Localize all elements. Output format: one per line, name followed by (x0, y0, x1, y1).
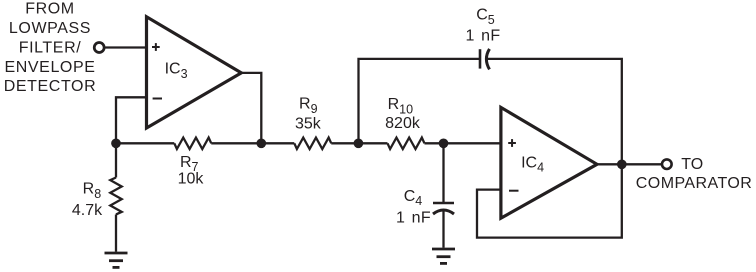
resistor R8 (72, 143, 122, 251)
node E (output junction) (617, 159, 627, 169)
wire R7 to node B (211, 142, 261, 144)
svg-text:R10: R10 (388, 96, 414, 116)
node D (R10/C4/IC4 plus junction) (439, 138, 449, 148)
svg-text:ENVELOPE: ENVELOPE (4, 59, 95, 76)
wire node B to R9 (261, 142, 294, 144)
label R10 820k (385, 96, 421, 132)
ground (R8) (105, 253, 128, 267)
wire node D down to C4 (442, 143, 444, 203)
capacitor C4 (396, 188, 454, 248)
svg-text:1 nF: 1 nF (465, 27, 500, 44)
input terminal (94, 43, 104, 53)
node B (IC3 output junction) (256, 138, 266, 148)
svg-text:FILTER/: FILTER/ (19, 39, 82, 56)
svg-text:FROM: FROM (25, 0, 75, 17)
label R7 10k (178, 154, 205, 188)
svg-text:4.7k: 4.7k (72, 202, 103, 219)
node A (junction R7/R8/IC3 minus) (111, 138, 121, 148)
wire IC3 inverting input feedback (116, 97, 147, 143)
wire IC4 output (597, 163, 661, 165)
ground (C4) (432, 249, 455, 263)
svg-text:35k: 35k (295, 115, 322, 132)
wire R9 to node C (331, 142, 358, 144)
resistor R9 (294, 138, 331, 149)
svg-text:C5: C5 (476, 7, 495, 27)
IC3 minus input sign (153, 98, 162, 100)
IC3 plus input sign (152, 43, 160, 51)
node TO COMPARATOR label (636, 156, 753, 192)
wire IC4 inverting input feedback loop (477, 164, 622, 237)
wire node D to IC4 + input (444, 142, 501, 144)
svg-text:R8: R8 (83, 181, 102, 201)
resistor R10 (388, 138, 425, 149)
resistor R7 (174, 138, 211, 149)
wire input terminal to IC3 + input (105, 46, 146, 48)
svg-text:C4: C4 (404, 188, 423, 208)
op-amp IC4 (501, 107, 597, 218)
wire node A to R7 (116, 142, 174, 144)
svg-text:R9: R9 (299, 96, 318, 116)
node FROM LOWPASS FILTER/ENVELOPE DETECTOR label (4, 0, 97, 95)
IC4 plus input sign (508, 139, 516, 147)
wire IC3 output to node B (241, 73, 261, 143)
svg-text:TO: TO (681, 156, 703, 173)
svg-text:820k: 820k (385, 115, 421, 132)
wire R10 to node D (424, 142, 443, 144)
node C (R9/R10/C5 junction) (354, 138, 364, 148)
svg-text:DETECTOR: DETECTOR (4, 78, 97, 95)
wire node C to R10 (358, 142, 387, 144)
wire node C up and across to C5 (359, 59, 481, 143)
svg-text:1 nF: 1 nF (396, 210, 431, 227)
svg-text:COMPARATOR: COMPARATOR (636, 175, 753, 192)
capacitor C5 (465, 7, 500, 70)
label R9 35k (295, 96, 322, 133)
IC4 minus input sign (509, 190, 519, 192)
svg-text:LOWPASS: LOWPASS (9, 20, 91, 37)
output terminal (662, 159, 672, 169)
svg-text:10k: 10k (178, 171, 205, 188)
wire C5 to right rail (487, 59, 622, 164)
op-amp IC3 (147, 17, 242, 128)
